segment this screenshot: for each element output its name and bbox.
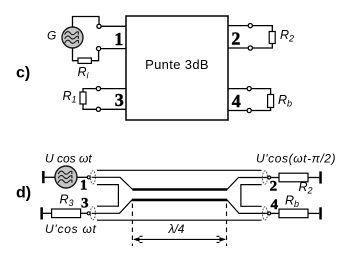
wire bar to R3: [43, 212, 52, 214]
svg-text:4: 4: [232, 91, 241, 111]
wire bar to generator: [45, 176, 56, 178]
top outer conductor: [97, 169, 262, 171]
dashed reference line right: [226, 204, 228, 247]
terminal bar Rb: [319, 207, 322, 219]
wire connector2 to R2: [271, 177, 279, 179]
port1 center conductor taper: [92, 177, 133, 189]
wire terminal to box pin3 top: [101, 88, 126, 90]
resistor R3: [52, 209, 81, 218]
terminal port1 bottom: [97, 47, 101, 51]
connector port 3: [87, 207, 95, 220]
wire R2 to bar: [308, 177, 319, 179]
wire terminal to box pin3 bottom: [101, 108, 126, 110]
wire terminal to box pin1 top: [102, 25, 126, 27]
resistor R2: [269, 32, 275, 44]
wire connector4 to Rb: [271, 212, 279, 214]
wire R3 to connector 3: [81, 212, 88, 214]
svg-text:3: 3: [81, 196, 89, 212]
svg-text:U'cos ωt: U'cos ωt: [45, 222, 97, 236]
wire Rb bottom to terminal: [252, 108, 271, 111]
terminal port3 top: [96, 87, 100, 91]
svg-text:2: 2: [270, 179, 278, 195]
left shield jumper (port1 lower to port3 upper): [97, 185, 119, 207]
wire terminal to box pin2 bottom: [228, 47, 248, 49]
wire generator top to terminal: [73, 17, 100, 28]
svg-text:U'cos(ωt-π/2): U'cos(ωt-π/2): [256, 152, 336, 166]
terminal port3 bottom: [96, 107, 100, 111]
wire box pin2 top to terminal: [228, 25, 248, 27]
coupled line lower (thick): [132, 199, 227, 202]
port3 center conductor taper: [92, 200, 132, 213]
svg-text:c): c): [16, 65, 30, 82]
generator G: [62, 27, 83, 48]
svg-text:Punte 3dB: Punte 3dB: [145, 57, 209, 72]
wire generator bottom to Ri: [73, 48, 79, 61]
connector port 4: [263, 207, 271, 220]
svg-text:4: 4: [270, 197, 278, 213]
wire R1 top to terminal: [83, 89, 96, 92]
terminal port1 top: [97, 24, 101, 28]
dashed reference line left: [131, 204, 133, 247]
terminal port2 top: [248, 24, 252, 28]
bridge box U1 Punte 3dB: [126, 16, 228, 120]
wire R1 bottom to terminal: [83, 104, 96, 109]
svg-text:d): d): [16, 185, 31, 202]
terminal bar R2: [319, 171, 322, 183]
terminal bar R3: [40, 207, 43, 219]
port2 center conductor taper: [227, 178, 267, 190]
port4 center conductor taper: [227, 200, 267, 214]
wire box pin4 top to terminal: [228, 88, 247, 90]
connector port 1: [87, 171, 95, 184]
terminal port4 top: [247, 87, 251, 91]
wire generator to connector 1: [77, 176, 87, 178]
resistor Rb (d): [279, 209, 308, 218]
wire terminal to R2 top: [253, 26, 272, 32]
svg-text:3: 3: [115, 90, 124, 110]
wire terminal to box pin1 bottom: [101, 48, 126, 50]
terminal bar generator: [42, 171, 45, 183]
wire terminal to Rb top: [252, 89, 271, 95]
terminal port4 bottom: [247, 108, 251, 112]
resistor Rb: [268, 95, 274, 108]
right shield jumper (port2 lower to port4 upper): [241, 185, 262, 207]
svg-text:U cos ωt: U cos ωt: [45, 152, 92, 166]
svg-text:1: 1: [80, 177, 88, 193]
svg-text:G: G: [47, 28, 56, 42]
resistor Ri: [78, 58, 91, 63]
generator U cos wt: [55, 166, 77, 188]
terminal port2 bottom: [248, 46, 252, 50]
resistor R2 (d): [279, 173, 308, 182]
wire R2 bottom to terminal: [253, 44, 272, 49]
bottom outer conductor: [97, 219, 262, 221]
svg-text:λ/4: λ/4: [168, 222, 185, 236]
resistor R1: [80, 92, 86, 104]
svg-text:1: 1: [114, 29, 123, 49]
dimension arrow lambda/4: [133, 236, 226, 242]
wire terminal to box pin4 bottom: [228, 110, 247, 112]
connector port 2: [263, 171, 271, 184]
wire Ri to terminal: [91, 51, 98, 61]
coupled line upper (thick): [132, 188, 227, 191]
wire Rb to bar: [308, 212, 319, 214]
svg-text:2: 2: [231, 28, 240, 48]
